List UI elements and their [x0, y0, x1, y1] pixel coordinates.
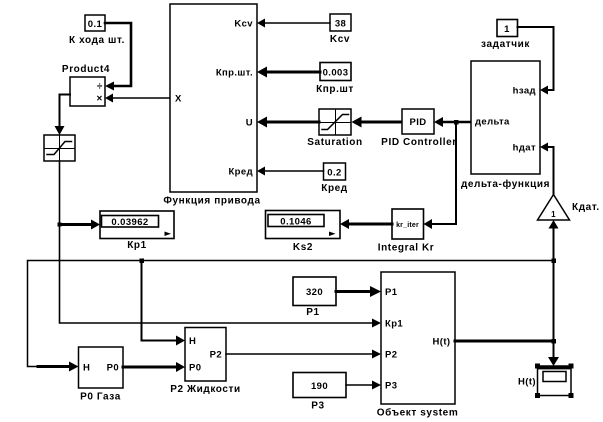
svg-text:0.1: 0.1: [88, 19, 103, 30]
block Р0 Газа: [79, 347, 124, 403]
svg-text:Р0: Р0: [107, 363, 119, 374]
svg-text:Кр1: Кр1: [385, 319, 403, 330]
block Product4: [62, 64, 110, 106]
wire 190 to Р3 port: [346, 381, 381, 390]
block Функция привода: [163, 4, 260, 207]
svg-text:×: ×: [97, 94, 103, 105]
wire Р2 output to Р2 input of Объект system: [226, 350, 381, 359]
wire Integral Kr to Ks2 display: [340, 219, 392, 229]
svg-text:190: 190: [311, 381, 328, 392]
svg-text:hзад: hзад: [513, 86, 536, 97]
block Р2 Жидкости: [170, 328, 241, 396]
wire feedback vertical from H(t) junction up to Кдат: [553, 228, 555, 341]
wire Saturation1 output down and right to Кр1 input of Объект system: [60, 161, 382, 328]
junction on Kp1 display branch: [58, 223, 62, 227]
wire 38 to Kcv port: [264, 22, 330, 24]
input arrow Кред port: [257, 167, 265, 176]
scope selection handles: [535, 364, 540, 369]
svg-text:PID: PID: [409, 117, 426, 128]
wire Saturation to U port: [266, 121, 319, 124]
wire Кдат output up to hдат port: [547, 147, 554, 195]
wire X output of Функция привода to Product4 multiply input: [105, 94, 170, 103]
constant block Р1 (320): [293, 277, 336, 318]
wire junction down to Integral Kr: [424, 122, 457, 229]
gain triangle Кдат (1): [538, 195, 600, 221]
constant block Кред (0.2): [321, 163, 348, 194]
block Объект system: [377, 272, 459, 419]
constant block Р3 (190): [293, 373, 346, 412]
svg-text:Н: Н: [189, 336, 196, 347]
junction дельта wire: [454, 120, 459, 125]
svg-text:Р2: Р2: [210, 350, 222, 361]
svg-text:X: X: [175, 94, 182, 105]
block PID Controller: [381, 109, 457, 148]
svg-text:задатчик: задатчик: [481, 39, 530, 50]
svg-text:0.03962: 0.03962: [111, 217, 148, 228]
svg-text:H(t): H(t): [518, 377, 536, 388]
svg-text:Ks2: Ks2: [293, 242, 313, 253]
wire branch down to Н port of Р2 Жидкости: [142, 261, 186, 346]
svg-text:38: 38: [335, 19, 346, 30]
svg-text:H(t): H(t): [433, 337, 451, 348]
junction feedback branch to Р2 Жидкости: [140, 259, 145, 264]
wire feedback horizontal to left side: [28, 261, 554, 367]
wire 0.1 to Product4 divide input: [105, 23, 131, 91]
svg-text:P1: P1: [385, 287, 398, 298]
svg-text:Р2: Р2: [385, 350, 397, 361]
svg-text:Р0: Р0: [189, 363, 201, 374]
wire Р0 Газа output to Р0 input of Р2 Жидкости: [123, 362, 185, 372]
svg-text:320: 320: [306, 287, 323, 298]
input arrow PID port: [434, 117, 443, 127]
svg-text:Р1: Р1: [306, 307, 319, 318]
wire 320 to P1 port: [336, 286, 381, 297]
display Kp1: [100, 211, 174, 251]
svg-text:Кпр.шт: Кпр.шт: [316, 84, 354, 95]
junction H(t) node: [552, 339, 557, 344]
svg-text:дельта: дельта: [475, 117, 510, 128]
wire 0.003 to Кпр.шт port: [266, 71, 320, 74]
input arrow Кдат: [549, 220, 559, 229]
block Saturation1: [44, 135, 75, 161]
svg-text:PID Controller: PID Controller: [381, 137, 457, 148]
svg-text:÷: ÷: [97, 82, 103, 93]
svg-text:1: 1: [504, 24, 510, 35]
input arrow Кпр.шт port: [257, 67, 267, 78]
display Ks2: [266, 211, 341, 254]
constant block K хода шт (0.1): [69, 15, 125, 46]
input arrow hзад port: [540, 86, 548, 95]
svg-text:Product4: Product4: [62, 64, 110, 75]
wire дельта output to PID input: [442, 121, 471, 124]
svg-text:Функция привода: Функция привода: [163, 196, 260, 207]
svg-text:Р3: Р3: [385, 381, 397, 392]
wire задатчик to hзад port: [518, 27, 554, 90]
block Integral Kr (kr_iter): [378, 209, 435, 254]
svg-text:Объект system: Объект system: [377, 407, 459, 419]
svg-text:U: U: [246, 118, 253, 129]
svg-text:Кр1: Кр1: [127, 240, 147, 251]
svg-text:Р2 Жидкости: Р2 Жидкости: [170, 384, 241, 395]
scope H(b): [518, 366, 571, 396]
wire H(t) output to feedback node: [455, 340, 554, 343]
svg-text:дельта-функция: дельта-функция: [461, 178, 550, 190]
svg-text:Н: Н: [83, 363, 90, 374]
input arrow hдат port: [540, 143, 548, 152]
svg-text:Kcv: Kcv: [234, 19, 253, 30]
svg-text:0.1046: 0.1046: [280, 217, 311, 228]
svg-text:0.2: 0.2: [327, 168, 341, 179]
wire PID Controller to Saturation: [352, 117, 403, 128]
input arrow U port: [257, 117, 267, 128]
wire branch to Kp1 display: [60, 220, 101, 230]
svg-text:Kcv: Kcv: [330, 34, 350, 45]
block Saturation: [307, 109, 362, 148]
svg-text:kr_iter: kr_iter: [396, 222, 419, 229]
input arrow Kcv port: [257, 19, 265, 28]
svg-text:Integral Kr: Integral Kr: [378, 243, 435, 254]
svg-text:0.003: 0.003: [323, 68, 349, 79]
svg-text:hдат: hдат: [513, 143, 536, 154]
constant block задатчик (1): [481, 20, 530, 51]
svg-text:К хода шт.: К хода шт.: [69, 35, 125, 46]
wire H(t) node down to scope: [548, 341, 559, 366]
svg-text:1: 1: [551, 210, 556, 219]
constant block Кпр.шт (0.003): [316, 63, 354, 96]
svg-text:Кпр.шт.: Кпр.шт.: [216, 68, 253, 79]
wire Product4 output to Saturation1: [55, 95, 71, 136]
svg-text:Р0 Газа: Р0 Газа: [80, 392, 121, 403]
svg-text:Кред: Кред: [321, 183, 348, 194]
wire 0.2 to Кред port: [264, 170, 324, 172]
junction feedback at y=260.5: [552, 259, 557, 264]
block дельта-функция: [461, 61, 550, 190]
arrow into Н port of Р0 Газа: [38, 362, 79, 372]
svg-text:Saturation: Saturation: [307, 137, 362, 148]
svg-text:Кдат.: Кдат.: [572, 202, 600, 213]
svg-text:Р3: Р3: [311, 401, 324, 412]
svg-text:Кред: Кред: [228, 167, 253, 178]
constant block Kcv (38): [330, 14, 351, 45]
